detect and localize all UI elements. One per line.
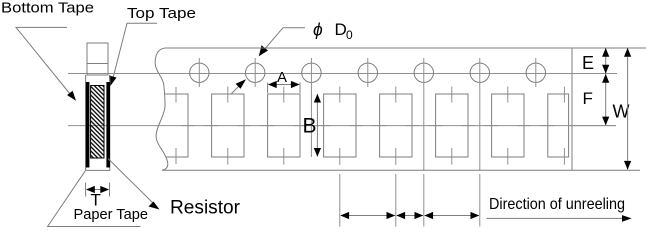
svg-text:Paper Tape: Paper Tape — [74, 206, 149, 223]
pocket 4 — [324, 94, 356, 157]
leader Bottom Tape — [16, 27, 71, 94]
svg-text:ϕ: ϕ — [313, 20, 323, 40]
bottom pitch dimension 1 — [341, 215, 395, 217]
side view body outline — [86, 75, 110, 170]
leader Top Tape — [113, 23, 158, 80]
pocket 7 — [492, 94, 524, 157]
label Paper Tape with funnel — [48, 171, 141, 227]
svg-text:Resistor: Resistor — [170, 197, 241, 218]
leader to hole 2 — [232, 82, 244, 94]
svg-text:E: E — [582, 53, 594, 73]
bottom pitch dimension 3 — [425, 215, 479, 217]
svg-text:Direction of unreeling: Direction of unreeling — [489, 196, 625, 213]
svg-text:W: W — [613, 102, 630, 122]
bottom pitch dimension 2 — [397, 215, 423, 217]
extension line pocket centerline right — [570, 125, 616, 127]
side view top rect — [87, 43, 108, 75]
sprocket hole 1 — [190, 63, 209, 82]
bottom tape bar (left) — [86, 82, 90, 168]
svg-text:Top Tape: Top Tape — [127, 5, 196, 22]
arrow direction of unreeling — [487, 217, 623, 219]
pocket 1 (partial at torn edge) — [165, 94, 189, 157]
pocket centerline — [68, 125, 616, 127]
sprocket hole 3 — [302, 63, 321, 82]
pocket 3 — [268, 94, 300, 157]
pocket 2 — [212, 94, 244, 157]
sprocket hole 2 — [246, 63, 265, 82]
svg-text:D: D — [335, 20, 347, 39]
svg-text:F: F — [583, 89, 593, 108]
pocket 6 — [436, 94, 468, 157]
sprocket hole 4 — [358, 63, 377, 82]
svg-text:B: B — [303, 115, 317, 138]
hole centerline — [68, 73, 617, 75]
pocket 5 — [380, 94, 412, 157]
pocket 8 (truncated at tape edge) — [548, 94, 569, 157]
sprocket hole 6 — [470, 63, 489, 82]
top tape bar (right) — [106, 82, 110, 168]
sprocket hole 7 — [526, 63, 545, 82]
leader phi D0 — [263, 28, 305, 51]
svg-text:A: A — [277, 69, 287, 86]
tape outline with torn left edge — [155, 48, 646, 170]
dimension T — [85, 183, 87, 197]
tape right edge — [571, 48, 573, 170]
sprocket hole 5 — [414, 63, 433, 82]
resistor hatch — [91, 86, 104, 159]
svg-text:0: 0 — [346, 28, 353, 42]
leader Resistor — [108, 159, 155, 206]
svg-text:Bottom Tape: Bottom Tape — [1, 0, 94, 16]
